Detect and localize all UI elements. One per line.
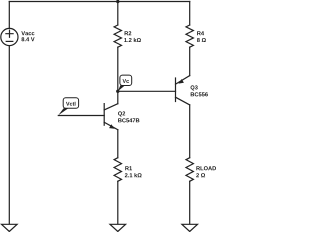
- junction dot node Vc: [116, 90, 119, 93]
- ground (left): [2, 224, 18, 231]
- label R2 name: [125, 31, 132, 35]
- label Q2 value BC547B: [118, 118, 139, 122]
- wire R1 to ground: [117, 181, 119, 224]
- junction dot top rail node: [116, 0, 119, 3]
- net label flag Vc: [118, 75, 132, 91]
- wire R4 to Q3 emitter: [189, 47, 191, 75]
- wire Vctl to Q2 base: [58, 115, 104, 117]
- ground (right): [182, 224, 198, 231]
- net label flag Vctl: [58, 98, 78, 116]
- resistor R1: [114, 158, 121, 182]
- wire left drop to source plus: [8, 2, 10, 29]
- label R2 value 1.2 kOhm: [124, 38, 141, 42]
- voltage source Vacc 8.4 V: [1, 28, 18, 45]
- label Vacc value 8.4 V: [21, 37, 34, 41]
- wire RLOAD to ground: [189, 181, 191, 224]
- wire source minus to ground: [8, 46, 10, 225]
- label R4 value 8 Ohm: [197, 38, 206, 42]
- wire node Vc to Q3 base: [118, 90, 176, 92]
- label R1 name: [125, 166, 132, 170]
- wire rail to R2: [117, 2, 119, 26]
- ground (middle): [110, 224, 126, 231]
- label R1 value 2.1 kOhm: [125, 173, 142, 177]
- wire top rail: [9, 1, 189, 3]
- label Q3 value BC556: [191, 92, 208, 96]
- wire rail to R4: [189, 2, 191, 26]
- resistor RLOAD: [186, 158, 193, 182]
- label RLOAD name: [196, 166, 216, 170]
- wire R2 to node Vc: [117, 47, 119, 91]
- label Q3 name: [191, 85, 198, 90]
- label Q2 name: [118, 111, 125, 116]
- label R4 name: [197, 31, 204, 35]
- resistor R2: [114, 25, 121, 47]
- label Vacc name: [21, 31, 34, 35]
- transistor Q2: [104, 91, 118, 157]
- label RLOAD value 2 Ohm: [196, 173, 205, 177]
- transistor Q3: [176, 76, 190, 158]
- resistor R4: [186, 25, 193, 47]
